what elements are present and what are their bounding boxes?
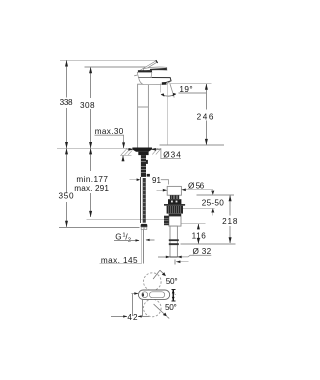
flange — [132, 148, 152, 152]
drain lever block — [164, 216, 169, 226]
lower small arrow row — [174, 259, 176, 264]
lever blade — [139, 61, 157, 73]
116 dimension — [181, 223, 205, 225]
capsule left circle — [142, 292, 148, 298]
50 deg upper leader — [153, 270, 160, 279]
svg-text:min.177: min.177 — [76, 175, 108, 184]
218/116 bottom ref — [181, 243, 236, 245]
drain plug cylinder — [167, 186, 181, 195]
svg-text:50°: 50° — [165, 303, 177, 312]
lever tip tick — [156, 60, 158, 63]
spout tip dark edges — [152, 78, 171, 84]
pull rod — [141, 229, 143, 263]
washer — [138, 152, 148, 155]
capsule height dim — [171, 288, 175, 290]
handle arm dark part — [150, 68, 167, 70]
pipe bottom — [170, 256, 177, 258]
svg-text:max.30: max.30 — [95, 127, 124, 136]
capsule slot — [149, 292, 164, 298]
dimension 91 — [130, 179, 138, 181]
42 dimension — [131, 293, 138, 295]
svg-text:350: 350 — [59, 192, 74, 201]
Ø34 arrows — [127, 148, 132, 150]
label Ø34 with box lines — [161, 148, 181, 158]
column seam — [138, 106, 149, 108]
drain pipe — [170, 226, 177, 257]
19 degree annotation — [170, 83, 211, 85]
25-50 dimension — [197, 194, 234, 196]
vertical ref short — [160, 84, 162, 93]
extension line min-max bottom — [86, 218, 164, 220]
svg-text:max. 291: max. 291 — [74, 184, 109, 193]
shank — [141, 155, 146, 177]
dome left tick — [134, 74, 137, 77]
pull rod upper — [139, 177, 141, 223]
hose nut — [141, 224, 148, 227]
extension line at counter right — [160, 144, 224, 146]
hose rod threaded — [143, 178, 146, 223]
drain band2 — [168, 199, 181, 204]
extension line 350 bottom — [59, 227, 139, 229]
arrows 338/350 — [65, 60, 68, 227]
pipe collar — [169, 239, 179, 241]
spout wedge — [139, 78, 171, 85]
aerator — [162, 82, 167, 85]
bottom view dashed circle upper — [144, 273, 162, 291]
extension line handle top — [60, 59, 157, 61]
dome — [137, 72, 152, 77]
svg-text:50°: 50° — [166, 277, 178, 286]
svg-text:246: 246 — [197, 113, 214, 122]
cartridge dark band — [138, 70, 152, 72]
counter hatch left — [121, 149, 132, 156]
svg-text:308: 308 — [80, 101, 95, 110]
shank tab — [146, 160, 148, 164]
svg-text:Ø 32: Ø 32 — [193, 247, 212, 256]
svg-text:19°: 19° — [179, 85, 192, 94]
drain body — [169, 214, 181, 227]
handle arm band — [143, 67, 167, 71]
faucet column — [138, 84, 149, 148]
svg-text:338: 338 — [60, 98, 73, 107]
centerline to hole — [167, 84, 169, 146]
50 deg lower leader — [154, 304, 165, 314]
counter top line — [57, 147, 133, 149]
tilted 19 line — [170, 83, 174, 97]
svg-text:Ø 56: Ø 56 — [188, 181, 205, 190]
svg-text:25-50: 25-50 — [202, 198, 224, 207]
svg-text:42: 42 — [127, 313, 138, 322]
shank knob — [147, 174, 150, 177]
svg-text:Ø34: Ø34 — [163, 151, 181, 160]
drain flange disc — [164, 204, 185, 206]
drain collar — [167, 206, 183, 214]
drain knurl band1 — [170, 195, 179, 199]
dimension line 338/350 (x=66.5) — [66, 60, 68, 227]
218 dimension — [229, 195, 231, 242]
base capsule — [138, 290, 169, 299]
angle arc — [161, 94, 176, 96]
counter bottom line — [120, 154, 132, 156]
capsule tick — [142, 293, 144, 296]
counter hatch right — [152, 149, 160, 155]
dome bottom edge — [138, 76, 152, 78]
dimension 246 — [205, 84, 207, 145]
svg-text:91: 91 — [152, 176, 161, 185]
svg-text:116: 116 — [192, 231, 207, 240]
extension line body top — [85, 66, 147, 68]
svg-text:218: 218 — [222, 217, 238, 226]
bottom view dashed circle lower — [144, 299, 162, 317]
dimension line 308/min-max (x=90.6) — [90, 67, 92, 217]
